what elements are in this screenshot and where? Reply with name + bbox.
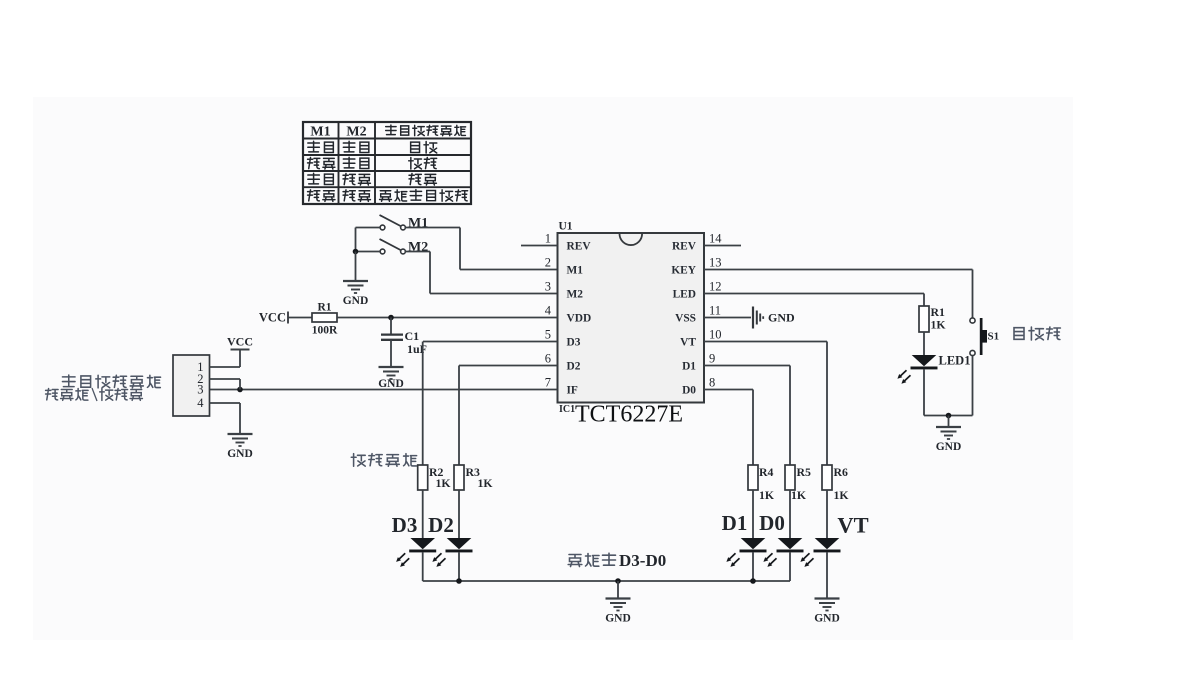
wires resistors to leds [422,490,424,538]
resistor R1 1K [919,305,946,332]
wire pin12 LED to R1 1K [704,293,924,295]
pin11 VSS ground sideways [704,307,795,329]
output bus wire [423,580,790,582]
svg-text:1uF: 1uF [407,342,427,356]
svg-text:4: 4 [197,396,204,410]
led VT arrows [800,553,813,567]
svg-text:3: 3 [545,280,551,294]
resistor R1 100R [312,302,338,337]
svg-text:M1: M1 [408,216,428,231]
wire LED1 to ground rail [923,369,925,415]
svg-text:D1: D1 [722,511,748,535]
svg-text:M1: M1 [310,125,330,140]
ground GND VT [814,599,840,625]
svg-text:REV: REV [567,241,592,253]
svg-text:U1: U1 [559,221,573,233]
junction bus ground [615,578,621,584]
svg-text:IF: IF [567,385,578,397]
ic right pin numbers 14-8 [709,232,722,390]
junction D1 bus [750,578,756,584]
svg-text:KEY: KEY [671,265,696,277]
junction VDD-C1 [388,315,394,321]
pushbutton S1 [970,318,999,356]
module label chinese line2 [46,388,143,401]
svg-text:S1: S1 [988,331,1000,343]
svg-text:1K: 1K [931,318,947,332]
svg-text:LED: LED [673,289,696,301]
wire S1 bottom to ground rail [972,356,974,416]
svg-text:R4: R4 [759,465,774,479]
wire module pin1 to vcc [210,366,241,368]
wire pin8 D0 to R4 [704,389,753,391]
svg-text:C1: C1 [405,329,420,343]
ic left pin labels [567,241,592,397]
resistor R3 1K [454,465,493,490]
led D1 [740,538,767,552]
wire R1 to LED1 [923,332,925,355]
wire pin5 D3 to R2 [423,341,558,343]
ground GND module [227,434,253,460]
svg-text:5: 5 [545,328,551,342]
svg-text:TCT6227E: TCT6227E [575,402,683,428]
label duimajian [1014,327,1060,340]
svg-text:VT: VT [837,513,868,538]
mode selection table [303,122,471,204]
wire to ground [948,416,950,428]
svg-text:2: 2 [545,256,551,270]
svg-text:D3: D3 [567,337,581,349]
svg-text:GND: GND [378,378,404,390]
svg-text:D0: D0 [759,511,785,535]
svg-text:M2: M2 [408,240,428,255]
wire M2 left to ground rail [356,251,381,253]
svg-text:13: 13 [709,256,722,270]
label output D3-D0 [568,551,666,570]
wire module pin4 to ground [210,402,241,404]
svg-text:1K: 1K [834,488,850,502]
svg-text:14: 14 [709,232,722,246]
wire module pin2 [210,378,241,380]
junction LED1-S1 ground [946,413,952,419]
svg-text:GND: GND [227,448,253,460]
wire M2 to pin3 [405,251,431,253]
svg-text:IC1: IC1 [559,404,575,415]
svg-text:1K: 1K [436,476,452,490]
ground GND switches [343,281,369,307]
svg-text:8: 8 [709,376,715,390]
led D0 arrows [763,553,776,567]
led D0 [777,538,804,552]
receiver module connector [173,355,210,416]
wire R1 to pin4 VDD [337,317,558,319]
led D3 [409,538,436,552]
svg-text:GND: GND [343,295,369,307]
svg-text:M2: M2 [346,125,366,140]
LED1 emission arrows [897,370,910,384]
resistor R2 1K [418,465,452,490]
vcc source label [259,311,288,325]
svg-text:D1: D1 [682,361,696,373]
wire pin13 KEY to S1 [704,269,973,271]
svg-text:R1: R1 [317,302,331,314]
svg-text:VCC: VCC [259,311,286,325]
wire down to ground [355,252,357,282]
wire vcc to R1 [288,317,312,319]
svg-text:VSS: VSS [675,313,696,325]
ic left pin numbers 1-7 [545,232,552,390]
svg-text:4: 4 [545,304,552,318]
wire pin10 VT to R6 [704,341,827,343]
led D3 arrows [396,553,409,567]
wire M1 to pin2 [405,227,461,229]
svg-text:6: 6 [545,352,551,366]
svg-text:100R: 100R [312,325,338,337]
led D2 arrows [432,553,445,567]
wire M1 left to ground rail [356,227,381,229]
svg-text:10: 10 [709,328,722,342]
led D2 [446,538,473,552]
led LED1 [911,354,971,370]
wires leds to bus [422,552,424,581]
pin 14 stub wire [704,245,741,247]
svg-text:7: 7 [545,376,551,390]
junction module pin3 [237,387,243,393]
svg-text:D3: D3 [392,513,418,537]
vcc module [227,335,253,350]
svg-text:1K: 1K [478,476,494,490]
label duima zhishi [351,454,416,467]
ground GND C1 [378,367,404,390]
switch M2 [380,239,429,255]
junction switches-ground [353,249,359,255]
svg-text:R6: R6 [834,465,849,479]
capacitor C1 1uF [381,329,427,356]
svg-text:1K: 1K [759,488,775,502]
ground GND output bus [605,599,631,625]
svg-text:GND: GND [814,613,840,625]
svg-text:VCC: VCC [227,335,253,349]
ic right pin labels [671,241,696,397]
svg-text:1K: 1K [791,488,807,502]
ic U1 TCT6227E body [558,221,705,428]
svg-text:D2: D2 [567,361,581,373]
resistor R4 1K [748,465,775,502]
svg-text:D3-D0: D3-D0 [619,551,666,570]
svg-text:GND: GND [768,311,795,325]
ground GND key circuit [936,427,962,453]
svg-text:GND: GND [605,613,631,625]
resistor R6 1K [822,465,849,502]
led D1 arrows [726,553,739,567]
svg-text:D0: D0 [682,385,696,397]
wire down to C1 [390,318,392,335]
svg-text:VDD: VDD [567,313,592,325]
svg-text:11: 11 [709,304,721,318]
svg-text:D2: D2 [428,513,454,537]
wire pin9 D1 to R5 [704,365,790,367]
svg-text:M1: M1 [567,265,584,277]
wire pin7 IF from receiver module [210,389,558,391]
svg-text:M2: M2 [567,289,584,301]
led VT [814,538,841,552]
svg-text:R5: R5 [797,465,812,479]
wire C1 to ground [390,340,392,367]
junction D2 bus [456,578,462,584]
switch M1 [380,215,429,231]
svg-text:REV: REV [672,241,697,253]
module label chinese line1 [62,375,160,388]
svg-text:1: 1 [545,232,551,246]
svg-text:3: 3 [197,383,203,397]
svg-text:LED1: LED1 [939,354,971,368]
wire pin6 D2 to R3 [459,365,558,367]
svg-text:12: 12 [709,280,722,294]
wire bus to ground [617,581,619,599]
svg-text:GND: GND [936,441,962,453]
svg-text:VT: VT [680,337,696,349]
svg-text:9: 9 [709,352,715,366]
pin 1 stub wire [521,245,558,247]
wire VT led to ground [826,552,828,598]
resistor R5 1K [785,465,811,502]
